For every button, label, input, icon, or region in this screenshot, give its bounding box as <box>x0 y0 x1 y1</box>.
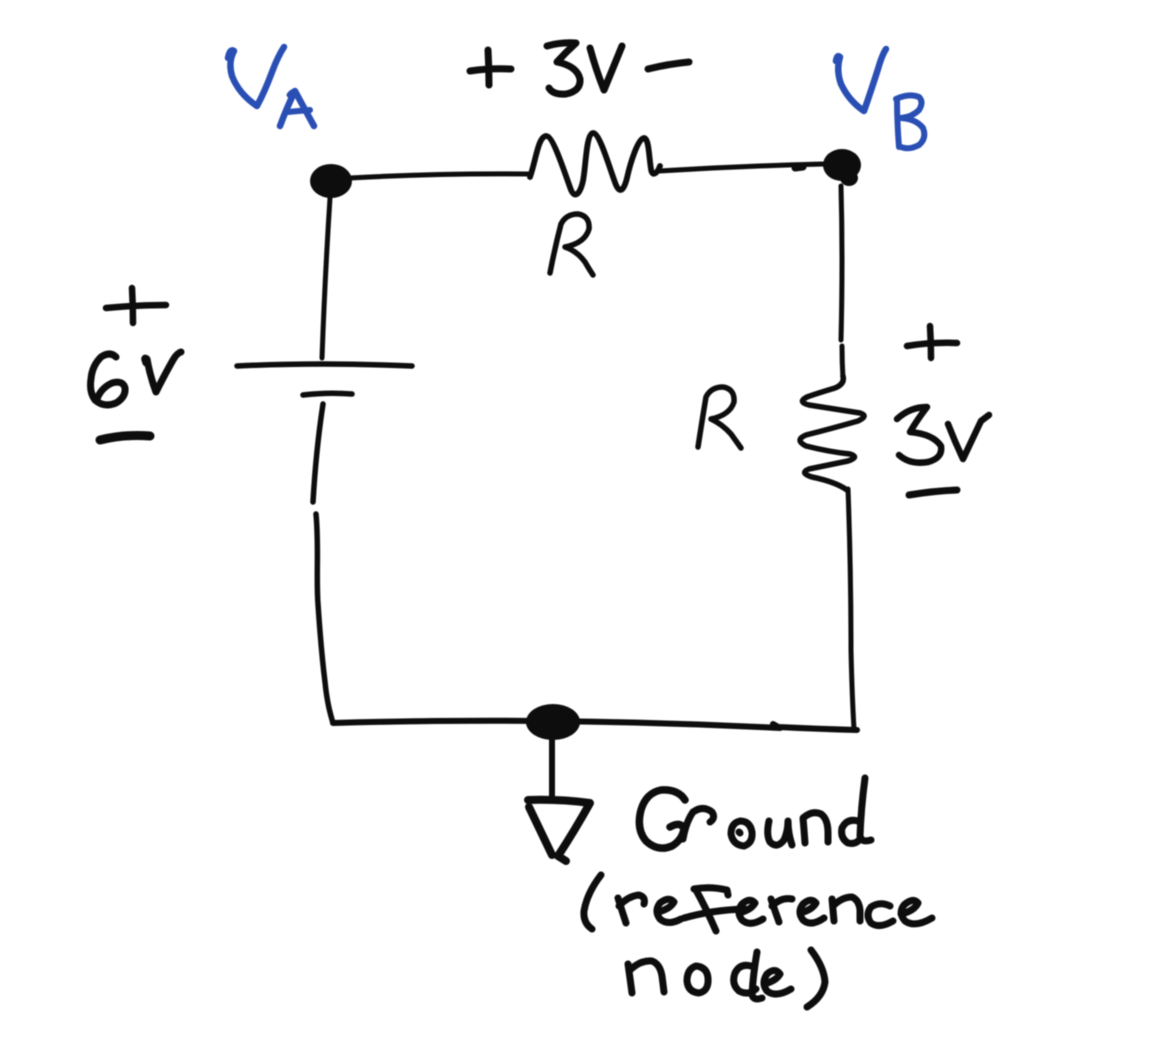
wire: resistor R2 to bottom right corner <box>848 489 854 729</box>
wire: node A to resistor R1 <box>350 174 530 178</box>
wire fleck at node B entry <box>795 167 803 168</box>
label - (battery negative) <box>100 436 150 441</box>
wire: resistor R1 to node B <box>659 164 823 171</box>
node VB label <box>836 49 924 148</box>
node VA label <box>228 47 314 126</box>
label R (R2 value) <box>698 387 741 448</box>
ground symbol (triangle, reference node) <box>528 800 590 861</box>
node VA junction dot <box>310 164 352 198</box>
resistor R1 (top, horizontal) <box>530 133 660 195</box>
node VB junction dot <box>823 149 861 181</box>
label Ground <box>639 778 871 848</box>
label + 3V - across R2 <box>897 326 989 495</box>
wire: node B down to resistor R2 <box>841 186 843 379</box>
label (reference <box>584 875 932 931</box>
wire: ground stem <box>549 740 555 799</box>
resistor R2 (right, vertical) <box>800 376 864 490</box>
label R (R1 value) <box>550 214 593 275</box>
label node) <box>628 950 825 1007</box>
wire: node A down to battery plus plate <box>322 198 330 358</box>
wire: bottom rail <box>333 721 857 730</box>
label + (battery positive) <box>106 288 166 323</box>
battery V1 bottom plate (short) <box>303 393 352 395</box>
label 6V (battery value) <box>91 352 182 405</box>
wire: battery minus down to bottom left corner <box>313 404 333 723</box>
battery V1 top plate (long) <box>237 364 412 366</box>
ground node junction dot <box>526 704 580 740</box>
label +3V- across R1 <box>470 43 689 94</box>
